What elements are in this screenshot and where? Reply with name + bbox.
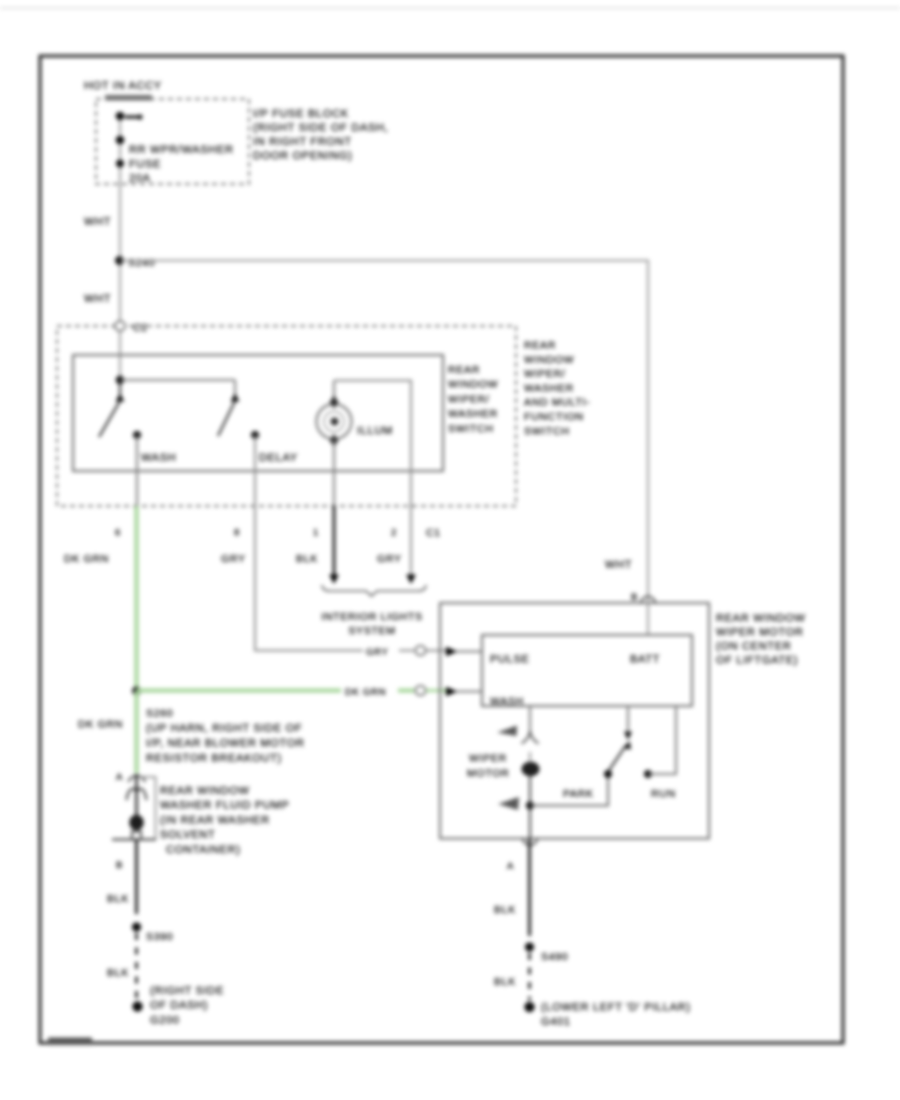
splice S390 [132, 922, 141, 931]
svg-text:WIPER/: WIPER/ [448, 393, 490, 405]
svg-text:REAR WINDOW: REAR WINDOW [716, 613, 806, 625]
svg-text:G200: G200 [150, 1014, 180, 1026]
svg-text:BLK: BLK [494, 976, 516, 988]
wire BLK motor ground [528, 839, 531, 937]
svg-text:WHT: WHT [605, 559, 632, 571]
switch inner box [73, 355, 443, 471]
wire into pump motor [135, 774, 137, 816]
wire GRY delay to motor pulse [255, 506, 363, 651]
svg-text:GRY: GRY [221, 553, 246, 565]
svg-text:S390: S390 [146, 931, 173, 943]
svg-text:WIPER/: WIPER/ [524, 368, 566, 380]
svg-text:BLK: BLK [494, 904, 516, 916]
switch common from module [627, 706, 629, 731]
svg-text:BATT: BATT [630, 654, 660, 666]
svg-text:BLK: BLK [107, 893, 129, 905]
footer tab label [48, 1038, 92, 1046]
svg-text:SWITCH: SWITCH [524, 425, 570, 437]
splice S240 [115, 256, 124, 265]
svg-text:PARK: PARK [563, 788, 594, 800]
svg-text:REAR: REAR [524, 340, 556, 352]
connector at motor box bottom [523, 839, 537, 846]
wire motor to park node [529, 776, 531, 839]
wire BLK pump to splice [135, 840, 138, 914]
switch WASH [119, 384, 121, 394]
svg-text:OF DASH): OF DASH) [150, 1000, 208, 1012]
connector fork at motor [522, 731, 539, 744]
svg-text:DELAY: DELAY [259, 452, 298, 464]
svg-text:6: 6 [115, 528, 121, 539]
wire to delay switch [120, 379, 235, 381]
wire DK GRN wash vertical [134, 506, 138, 691]
splice S490 [525, 942, 534, 951]
svg-text:C1: C1 [426, 527, 441, 539]
wire DK GRN down to pump [134, 691, 138, 773]
svg-text:MOTOR: MOTOR [467, 768, 509, 780]
node S260 junction [132, 687, 141, 696]
wire run to module [648, 706, 676, 774]
svg-text:B: B [631, 592, 638, 603]
svg-text:WHT: WHT [84, 216, 111, 228]
svg-text:GRY: GRY [366, 647, 389, 658]
svg-text:BLK: BLK [296, 553, 318, 565]
wire park contact [530, 774, 608, 806]
svg-text:FUSE: FUSE [129, 159, 161, 171]
svg-text:A: A [116, 772, 123, 783]
wire WHT feed to motor [120, 261, 648, 604]
svg-text:GRY: GRY [377, 553, 402, 565]
svg-text:WASHER FLUID PUMP: WASHER FLUID PUMP [160, 800, 289, 812]
svg-text:BLK: BLK [107, 967, 129, 979]
svg-text:(ON CENTER: (ON CENTER [716, 641, 791, 653]
connector at pump [129, 776, 146, 782]
svg-text:(UP HARN, RIGHT SIDE OF: (UP HARN, RIGHT SIDE OF [146, 723, 302, 735]
washer pump element [127, 789, 147, 800]
svg-text:ILLUM: ILLUM [357, 425, 393, 437]
svg-text:A: A [507, 861, 514, 872]
svg-text:DOOR OPENING): DOOR OPENING) [253, 150, 353, 162]
ground G401 [524, 1002, 534, 1012]
wire batt into module [647, 603, 649, 635]
svg-text:CONTAINER): CONTAINER) [166, 844, 241, 856]
wire DK GRN horizontal to motor wash [137, 688, 342, 692]
svg-text:WIPER: WIPER [469, 753, 507, 765]
svg-text:(RIGHT SIDE OF DASH,: (RIGHT SIDE OF DASH, [253, 122, 388, 134]
svg-text:SWITCH: SWITCH [448, 423, 494, 435]
svg-text:REAR: REAR [448, 364, 480, 376]
svg-text:G401: G401 [541, 1016, 571, 1028]
connector on wash wire [415, 686, 425, 696]
svg-text:(LOWER LEFT 'D' PILLAR): (LOWER LEFT 'D' PILLAR) [541, 1002, 691, 1014]
svg-text:(RIGHT SIDE: (RIGHT SIDE [150, 985, 224, 997]
svg-text:DK GRN: DK GRN [78, 719, 123, 731]
svg-text:RESISTOR BREAKOUT): RESISTOR BREAKOUT) [146, 753, 282, 765]
wiper module box [482, 635, 692, 706]
svg-text:I/P, NEAR BLOWER MOTOR: I/P, NEAR BLOWER MOTOR [146, 738, 305, 750]
pump motor armature [129, 815, 143, 831]
svg-text:WIPER MOTOR: WIPER MOTOR [716, 627, 804, 639]
contact RUN [644, 770, 652, 778]
fuse block dashed box [96, 99, 249, 184]
svg-text:20A: 20A [129, 173, 151, 185]
svg-text:OF LIFTGATE): OF LIFTGATE) [716, 655, 798, 667]
svg-text:WINDOW: WINDOW [448, 379, 498, 391]
svg-text:WASH: WASH [490, 696, 524, 708]
connector label blob on fuse box edge [105, 95, 152, 101]
page top scan line [0, 7, 900, 9]
connector C2 [115, 321, 125, 331]
svg-text:I/P FUSE BLOCK: I/P FUSE BLOCK [253, 108, 349, 120]
svg-text:RUN: RUN [651, 788, 676, 800]
wire BLK to interior lights [333, 506, 336, 576]
connector on pulse wire [415, 646, 425, 656]
svg-text:WASHER: WASHER [448, 408, 498, 420]
svg-text:WASH: WASH [141, 452, 176, 464]
svg-text:C2: C2 [133, 322, 148, 334]
svg-text:WINDOW: WINDOW [524, 354, 574, 366]
svg-text:(IN REAR WASHER: (IN REAR WASHER [160, 814, 270, 826]
wire module to motor [529, 706, 531, 733]
wire GRY to interior lights [410, 506, 412, 576]
svg-text:B: B [116, 860, 123, 871]
park/run switch blade [608, 746, 626, 773]
wire WHT from fuse down to switch [119, 112, 121, 380]
svg-text:S260: S260 [146, 708, 173, 720]
pump base [132, 832, 141, 840]
svg-text:SOLVENT: SOLVENT [160, 829, 215, 841]
lamp ILLUM [333, 381, 335, 405]
brace interior lights [322, 585, 426, 596]
svg-text:FUNCTION: FUNCTION [524, 411, 584, 423]
svg-text:RR WPR/WASHER: RR WPR/WASHER [129, 144, 234, 156]
brush arrow P [497, 726, 517, 737]
svg-text:INTERIOR LIGHTS: INTERIOR LIGHTS [321, 611, 423, 623]
svg-text:AND MULTI-: AND MULTI- [524, 397, 590, 409]
svg-text:S490: S490 [541, 951, 568, 963]
svg-text:S240: S240 [128, 257, 155, 269]
svg-text:8: 8 [234, 528, 240, 539]
svg-text:WHT: WHT [84, 293, 111, 305]
svg-text:DK GRN: DK GRN [345, 687, 386, 698]
wiper motor armature [522, 762, 540, 776]
svg-text:2: 2 [391, 528, 397, 539]
connector at motor top [641, 597, 655, 604]
switch dashed box [57, 326, 516, 506]
leader bracket pump label [140, 777, 156, 839]
motor box rear window wiper motor [440, 603, 709, 839]
contact PARK [604, 770, 612, 778]
svg-text:IN RIGHT FRONT: IN RIGHT FRONT [253, 136, 352, 148]
svg-text:PULSE: PULSE [490, 654, 530, 666]
ground G200 [132, 1001, 142, 1011]
wire BLK dashed to ground G401 [528, 953, 531, 1000]
svg-text:WASHER: WASHER [524, 382, 574, 394]
svg-text:DK GRN: DK GRN [64, 553, 109, 565]
fuse RR WPR/WASHER 20A [116, 112, 125, 121]
node park junction [526, 802, 534, 810]
switch DELAY [234, 380, 236, 394]
svg-text:SYSTEM: SYSTEM [348, 625, 395, 637]
brush arrow lower [498, 797, 519, 810]
wire BLK dashed to ground [135, 933, 138, 1000]
svg-text:REAR WINDOW: REAR WINDOW [160, 785, 250, 797]
svg-text:1: 1 [313, 528, 319, 539]
svg-text:HOT IN ACCY: HOT IN ACCY [84, 80, 162, 92]
node switch common [116, 376, 124, 384]
